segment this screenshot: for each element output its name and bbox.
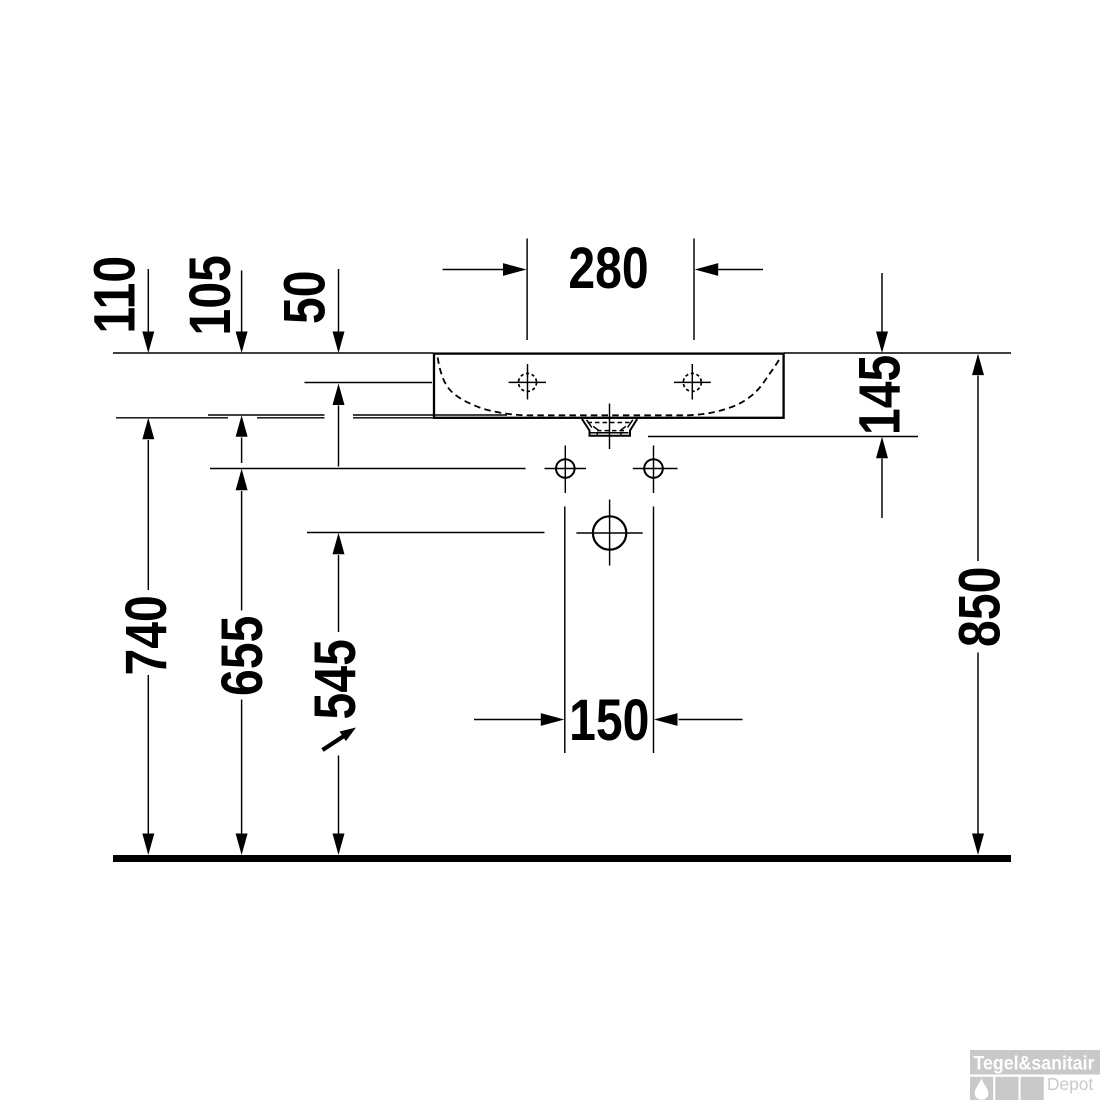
svg-text:280: 280 <box>568 237 648 301</box>
svg-text:655: 655 <box>211 616 275 696</box>
svg-text:Depot: Depot <box>1047 1074 1093 1094</box>
svg-text:Tegel&sanitair: Tegel&sanitair <box>974 1053 1095 1075</box>
svg-text:110: 110 <box>84 256 148 334</box>
svg-text:150: 150 <box>569 689 649 753</box>
svg-text:50: 50 <box>273 270 337 324</box>
svg-text:145: 145 <box>848 355 912 435</box>
svg-text:850: 850 <box>948 567 1012 647</box>
svg-text:105: 105 <box>179 255 243 335</box>
svg-text:740: 740 <box>115 595 179 675</box>
svg-text:545: 545 <box>304 639 368 719</box>
